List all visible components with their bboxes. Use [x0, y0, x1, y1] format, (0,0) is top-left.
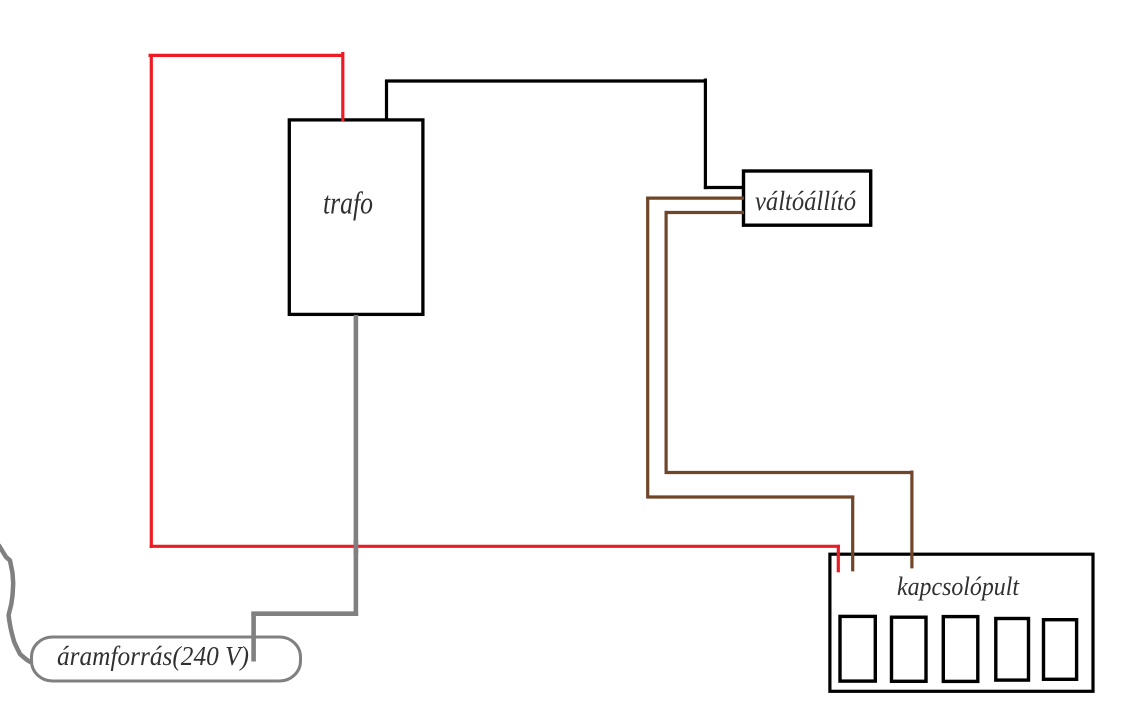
wire black: horizontal from trafo top to váltóállító drop	[385, 79, 707, 82]
power source rounded box "áramforrás(240 V)"	[32, 637, 301, 681]
wire brown B: horizontal run right	[665, 471, 914, 474]
wire gray: wavy lead from page edge to áramforrás	[0, 546, 31, 663]
wire brown B: vertical drop into kapcsolópult	[910, 471, 913, 569]
switch slot 2	[892, 617, 927, 681]
switch slot 3	[943, 617, 978, 682]
wire black: vertical stub down into trafo top	[385, 80, 388, 120]
wire brown B: long vertical	[664, 211, 667, 474]
switch-setter box "váltóállító"	[744, 171, 871, 225]
wire brown A: horizontal from váltóállító left	[646, 197, 744, 200]
wire brown A: long vertical	[646, 197, 649, 499]
svg-text:kapcsolópult: kapcsolópult	[897, 572, 1020, 601]
switch slot 4	[996, 619, 1029, 681]
wire brown A: vertical drop into kapcsolópult	[851, 496, 854, 572]
wire red: vertical drop into kapcsolópult	[837, 545, 840, 573]
wire gray: vertical drop into áramforrás	[251, 612, 256, 662]
switch slot 5	[1044, 620, 1077, 680]
control panel box "kapcsolópult"	[830, 554, 1093, 691]
wire gray: crossing patch over red wire	[354, 540, 359, 554]
wire black: vertical drop toward váltóállító	[704, 79, 707, 190]
wire red: top horizontal from power loop to trafo	[149, 54, 345, 57]
wire black: horizontal into váltóállító left side	[704, 186, 743, 189]
transformer box "trafo"	[289, 120, 423, 315]
svg-text:trafo: trafo	[323, 185, 373, 221]
wire red: bottom horizontal to kapcsolópult	[150, 545, 840, 548]
wire red: left vertical down the page	[150, 54, 153, 548]
wire red: right vertical drop into trafo top	[341, 52, 344, 121]
wire brown A: horizontal run right	[647, 495, 855, 498]
wire gray: horizontal jog left	[251, 611, 358, 616]
wire brown B: horizontal from váltóállító left	[665, 211, 745, 214]
switch slot 1	[840, 616, 875, 681]
wire gray: vertical from trafo bottom	[354, 315, 359, 616]
svg-text:váltóállító: váltóállító	[755, 186, 856, 216]
svg-text:áramforrás(240 V): áramforrás(240 V)	[57, 641, 249, 671]
